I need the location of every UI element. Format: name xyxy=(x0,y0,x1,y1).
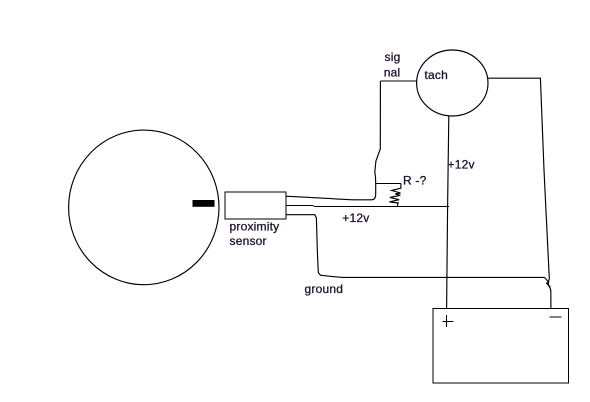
resistor top lead xyxy=(376,183,401,185)
proximity sensor box xyxy=(225,192,286,219)
wire: tach left lead xyxy=(380,80,416,82)
svg-text:+12v: +12v xyxy=(342,211,369,225)
label: sig nal xyxy=(384,50,401,80)
battery minus terminal xyxy=(549,316,561,318)
svg-text:nal: nal xyxy=(384,66,401,80)
svg-text:ground: ground xyxy=(305,282,344,296)
wire: signal line up to tach xyxy=(375,81,381,184)
label: proximity sensor xyxy=(230,220,280,248)
svg-text:proximity: proximity xyxy=(230,220,280,234)
wire: tach bottom feed to battery + xyxy=(447,116,449,308)
tach U1 xyxy=(417,50,488,116)
svg-text:+12v: +12v xyxy=(448,158,475,172)
wire: ground from sensor xyxy=(286,215,551,288)
svg-text:tach: tach xyxy=(425,68,448,82)
resistor R xyxy=(389,184,401,207)
svg-text:R -?: R -? xyxy=(403,174,427,188)
wheel disc xyxy=(69,130,219,285)
wire: sensor signal output xyxy=(286,184,376,200)
battery box xyxy=(433,308,568,383)
wire: tach right lead to battery minus xyxy=(488,78,551,308)
wire: +12v rail from sensor xyxy=(286,205,449,208)
svg-text:sig: sig xyxy=(385,50,401,64)
svg-text:sensor: sensor xyxy=(230,234,267,248)
battery plus terminal xyxy=(443,315,454,327)
magnet mark on wheel xyxy=(193,200,215,207)
